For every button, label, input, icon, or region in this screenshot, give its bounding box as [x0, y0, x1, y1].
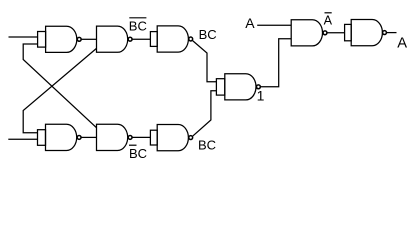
nand U1 body	[46, 26, 77, 52]
nand U7 input box	[216, 79, 224, 95]
wire input bottom-left	[8, 138, 37, 140]
wire U6 out to U7 lower input	[193, 91, 217, 137]
nand U6 input box	[150, 130, 157, 145]
nand U2 output bubble	[128, 37, 132, 41]
svg-text:1: 1	[257, 88, 265, 104]
nand U1 input box	[38, 32, 46, 48]
nand U6 output bubble	[189, 136, 193, 140]
svg-text:BC: BC	[129, 18, 147, 33]
wire U3 out to U7 upper input	[193, 41, 217, 82]
wire input top-left	[9, 36, 38, 38]
wire cross-couple from U1 lower input to U5 upper input	[23, 44, 96, 128]
nand U4 output bubble	[77, 135, 81, 139]
nand U3 output bubble	[189, 37, 193, 41]
label Bbar C overline (bottom)	[129, 144, 137, 146]
nand U1 output bubble	[77, 37, 81, 41]
nand U3 body	[157, 26, 188, 52]
wire cross-couple from U4 upper input to U2 lower input	[23, 48, 96, 132]
nand U5 body	[97, 124, 128, 150]
wire input A to U8 upper input	[257, 24, 291, 26]
nand U4 input box	[38, 130, 46, 146]
nand U8 output bubble	[323, 31, 327, 35]
svg-text:A: A	[397, 35, 407, 51]
nand U7 body	[225, 74, 256, 100]
svg-text:BC: BC	[198, 137, 216, 152]
label Abar overline	[325, 12, 332, 14]
label BCbar overline (top)	[129, 17, 146, 19]
nand U9 input box	[345, 24, 352, 40]
nand U7 output bubble	[256, 85, 260, 89]
wire U1 out to U2	[82, 38, 97, 40]
nand U2 body	[97, 26, 128, 52]
nand U9 body	[351, 20, 382, 46]
nand U6 body	[157, 125, 188, 151]
svg-text:A: A	[245, 15, 255, 31]
nand U5 output bubble	[128, 135, 132, 139]
wire U4 out to U5	[81, 136, 96, 138]
wire U7 out up to U8 lower input	[261, 39, 292, 87]
wire U9 output	[387, 32, 397, 34]
nand U4 body	[46, 124, 77, 150]
svg-text:BC: BC	[199, 27, 217, 42]
wire U8 out to U9	[327, 32, 344, 34]
wire U5 out to U6	[132, 136, 150, 138]
wire U2 out to U3	[132, 38, 150, 40]
nand U8 body	[291, 20, 322, 46]
svg-text:BC: BC	[129, 146, 147, 161]
svg-text:A: A	[324, 13, 333, 27]
nand U9 output bubble	[383, 31, 387, 35]
nand U3 input box	[150, 32, 157, 47]
